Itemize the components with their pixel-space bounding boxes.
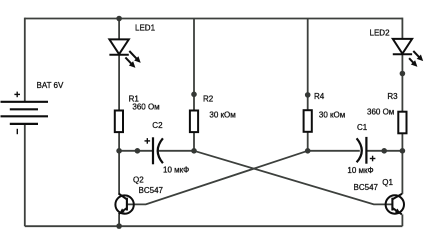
svg-text:C1: C1 [357,123,368,132]
svg-text:BC547: BC547 [354,183,379,192]
svg-text:10 мкФ: 10 мкФ [163,166,189,175]
svg-text:R2: R2 [203,95,214,104]
svg-text:BC547: BC547 [139,186,164,195]
svg-text:LED2: LED2 [370,28,391,37]
svg-text:C2: C2 [152,121,163,130]
svg-text:LED1: LED1 [135,23,156,32]
svg-text:360 Ом: 360 Ом [367,108,394,117]
svg-text:BAT 6V: BAT 6V [37,81,64,90]
svg-text:360 Ом: 360 Ом [132,103,159,112]
svg-text:Q1: Q1 [382,178,393,187]
svg-text:R4: R4 [314,92,325,101]
svg-text:Q2: Q2 [133,176,144,185]
svg-text:30 кОм: 30 кОм [319,110,345,119]
svg-text:10 мкФ: 10 мкФ [347,166,373,175]
svg-text:R3: R3 [387,92,398,101]
svg-text:30 кОм: 30 кОм [209,110,235,119]
